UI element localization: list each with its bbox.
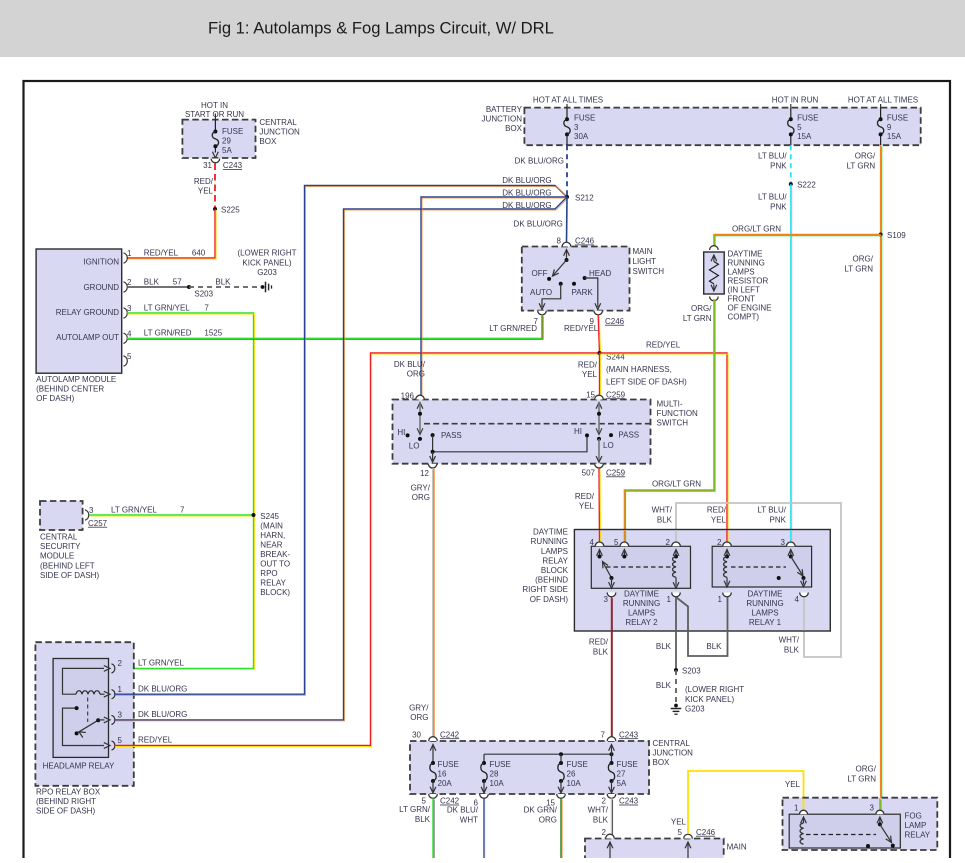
svg-text:ORG: ORG — [407, 370, 425, 379]
CJB pin 2 cap — [607, 794, 616, 798]
wire DK BLU/ORG dashed fuse 3 to S212 — [566, 145, 568, 196]
fuse F5 — [790, 108, 792, 120]
connector C243 pin 31 cap — [211, 159, 220, 163]
wire RED/YEL S244 down to C259 pin 15 — [599, 353, 601, 395]
central junction box (fuse 29) — [182, 120, 255, 158]
svg-text:29: 29 — [222, 137, 231, 146]
svg-text:1525: 1525 — [204, 329, 222, 338]
svg-text:RIGHT SIDE: RIGHT SIDE — [522, 585, 568, 594]
relay internal pin2 line — [63, 668, 105, 694]
svg-text:3: 3 — [118, 711, 123, 720]
relay2 switch arm — [603, 562, 612, 579]
wire WHT/BLK relay2 pin2 loop to relay1 pin4 — [676, 503, 841, 657]
svg-text:640: 640 — [192, 248, 206, 257]
MFS pass wire to right HI and pin 12 — [433, 435, 587, 452]
svg-text:5: 5 — [797, 123, 802, 132]
svg-text:DK BLU/: DK BLU/ — [394, 360, 426, 369]
ground G203 lower symbol — [674, 704, 678, 708]
svg-text:C242: C242 — [440, 730, 460, 739]
svg-text:3: 3 — [781, 538, 786, 547]
svg-text:GRY/: GRY/ — [409, 704, 429, 713]
wire LT BLU/PNK dashed fuse5 to S222 — [790, 145, 792, 183]
MFS pin 15 cap — [595, 395, 604, 399]
svg-text:S203: S203 — [682, 666, 701, 675]
svg-text:WHT: WHT — [460, 815, 478, 824]
svg-text:(BEHIND: (BEHIND — [535, 576, 568, 585]
svg-text:2: 2 — [602, 797, 607, 806]
relay1 contact dot — [777, 576, 781, 580]
switch common dot — [565, 258, 569, 262]
svg-text:HI: HI — [397, 428, 405, 437]
wire to pin 12 — [432, 452, 434, 461]
svg-text:MAIN: MAIN — [633, 247, 653, 256]
module pin 2 bracket — [124, 282, 128, 292]
svg-text:FUSE: FUSE — [887, 113, 908, 122]
CJB pin 6 cap — [480, 794, 489, 798]
svg-text:2: 2 — [717, 538, 722, 547]
fuse F9 — [880, 108, 882, 120]
svg-text:OF DASH): OF DASH) — [36, 394, 75, 403]
svg-text:C242: C242 — [440, 797, 460, 806]
MFS left internal wire — [417, 403, 423, 409]
relay1 pin3 cap — [787, 542, 796, 546]
wire DK BLU/ORG relay pin 3 to S212 branch — [114, 197, 567, 720]
svg-text:DK BLU/ORG: DK BLU/ORG — [515, 157, 564, 166]
svg-text:C259: C259 — [606, 468, 626, 477]
wire stub ORG/LT GRN into relay2 pin5 — [623, 530, 625, 544]
relay pin 3 arrow and bracket — [104, 717, 110, 723]
svg-text:5: 5 — [118, 736, 123, 745]
svg-text:C243: C243 — [619, 730, 639, 739]
CJB pin 5 cap — [429, 794, 438, 798]
svg-text:PARK: PARK — [572, 288, 594, 297]
svg-text:OF DASH): OF DASH) — [530, 595, 569, 604]
svg-text:RED/: RED/ — [589, 638, 609, 647]
svg-text:AUTOLAMP OUT: AUTOLAMP OUT — [56, 333, 119, 342]
wire RED/YEL S225 to autolamp module pin 1 — [127, 209, 215, 258]
fog relay dashed link — [806, 834, 876, 836]
svg-text:ORG/: ORG/ — [853, 255, 874, 264]
CJB pin 15 cap — [557, 794, 566, 798]
svg-text:12: 12 — [420, 469, 429, 478]
resistor internal arrows — [711, 255, 717, 261]
fuse 29 arrow — [213, 152, 219, 158]
svg-text:PNK: PNK — [770, 161, 787, 170]
lower switch pin 5 cap — [684, 834, 693, 838]
svg-text:KICK PANEL): KICK PANEL) — [685, 695, 735, 704]
svg-text:RED/: RED/ — [575, 492, 595, 501]
svg-text:RUNNING: RUNNING — [728, 259, 765, 268]
relay internal dashed actuator link — [87, 698, 89, 723]
svg-text:FUSE: FUSE — [574, 113, 595, 122]
wire ORG/LT GRN resistor to DRL relay2 pin 5 — [624, 299, 714, 544]
MFS inner dashed separator — [424, 423, 651, 425]
fog lamp relay box — [783, 798, 938, 850]
svg-text:HI: HI — [574, 427, 582, 436]
relay coil — [76, 691, 100, 694]
splice S245 — [252, 513, 256, 517]
relay pin 2 arrow and bracket — [104, 666, 110, 672]
svg-text:C259: C259 — [606, 390, 626, 399]
svg-text:(LOWER RIGHT: (LOWER RIGHT — [237, 249, 296, 258]
svg-text:RPO: RPO — [260, 569, 277, 578]
svg-text:LT GRN: LT GRN — [844, 264, 873, 273]
relay2 pin5 stub — [622, 550, 628, 556]
svg-text:5A: 5A — [617, 779, 627, 788]
svg-text:LT GRN/YEL: LT GRN/YEL — [111, 505, 157, 514]
wire BLK module pin 2 to S203 — [127, 286, 188, 288]
fuse F28 — [483, 754, 485, 763]
wire DK BLU/ORG relay pin 1 to S212 branch — [114, 186, 567, 695]
svg-text:DAYTIME: DAYTIME — [624, 590, 659, 599]
svg-text:RED/YEL: RED/YEL — [564, 324, 599, 333]
wire DK BLU/ORG S212 to main light switch pin 8 — [566, 197, 569, 242]
svg-text:SIDE OF DASH): SIDE OF DASH) — [36, 807, 95, 816]
ground G203 symbol (sideways) — [261, 285, 265, 289]
fog relay pin 3 internal — [877, 817, 883, 823]
svg-text:S222: S222 — [797, 181, 816, 190]
OFF position dot — [547, 277, 551, 281]
svg-text:DK BLU/ORG: DK BLU/ORG — [502, 201, 551, 210]
relay2 pin4 cap — [595, 542, 604, 546]
CJB pin 30 cap — [429, 737, 438, 741]
svg-text:Fig 1: Autolamps & Fog Lamps C: Fig 1: Autolamps & Fog Lamps Circuit, W/… — [208, 19, 554, 38]
wire DK BLU/ORG S212 middle branch to MFS pin 196 — [421, 197, 567, 396]
wire stub LT BLU/PNK into relay1 pin3 — [790, 530, 792, 544]
svg-text:DK BLU/ORG: DK BLU/ORG — [514, 220, 563, 229]
svg-text:LT GRN: LT GRN — [847, 161, 876, 170]
svg-text:LAMPS: LAMPS — [541, 547, 568, 556]
MFS pin 12 cap — [428, 464, 437, 468]
svg-text:RESISTOR: RESISTOR — [728, 277, 769, 286]
svg-text:DK BLU/: DK BLU/ — [447, 806, 479, 815]
svg-text:BOX: BOX — [505, 124, 523, 133]
relay2 coil — [673, 550, 679, 556]
svg-text:OF ENGINE: OF ENGINE — [728, 304, 772, 313]
daytime running lamps relay block box — [574, 530, 830, 632]
svg-text:BLK: BLK — [593, 815, 609, 824]
svg-text:FUNCTION: FUNCTION — [657, 409, 699, 418]
relay switch arm — [79, 720, 98, 732]
central junction box lower — [410, 741, 649, 794]
svg-text:ORG/LT GRN: ORG/LT GRN — [652, 480, 701, 489]
relay 1 inner box — [712, 546, 811, 587]
relay2 pin4 internal — [597, 550, 603, 556]
switch pin8 entry arrow — [564, 250, 570, 256]
CSM pin 3 bracket — [85, 510, 89, 520]
svg-text:20A: 20A — [438, 779, 453, 788]
splice S225 — [213, 207, 217, 211]
relay internal pivot to pin3 — [98, 719, 104, 721]
svg-text:BREAK-: BREAK- — [260, 550, 290, 559]
svg-text:BLK: BLK — [784, 645, 800, 654]
svg-text:WHT/: WHT/ — [652, 506, 673, 515]
svg-text:30A: 30A — [574, 132, 589, 141]
AUTO position dot — [559, 282, 563, 286]
svg-text:9: 9 — [887, 123, 892, 132]
svg-text:AUTOLAMP MODULE: AUTOLAMP MODULE — [36, 375, 116, 384]
svg-text:RED/: RED/ — [194, 177, 214, 186]
svg-text:RED/YEL: RED/YEL — [144, 248, 179, 257]
svg-text:PASS: PASS — [618, 431, 639, 440]
svg-text:START OR RUN: START OR RUN — [185, 110, 244, 119]
svg-text:YEL: YEL — [582, 370, 598, 379]
fuse16 entry arrow — [430, 745, 436, 751]
svg-text:BOX: BOX — [653, 758, 671, 767]
svg-text:RUNNING: RUNNING — [623, 599, 660, 608]
svg-text:PNK: PNK — [770, 515, 787, 524]
fuse F26 — [560, 754, 562, 763]
svg-text:FUSE: FUSE — [438, 760, 459, 769]
svg-text:S212: S212 — [575, 193, 594, 202]
svg-text:DAYTIME: DAYTIME — [533, 528, 568, 537]
svg-text:BLK: BLK — [144, 277, 160, 286]
svg-text:3: 3 — [127, 304, 132, 313]
svg-text:DK BLU/ORG: DK BLU/ORG — [502, 188, 551, 197]
svg-text:2: 2 — [118, 659, 123, 668]
fog relay coil — [801, 817, 807, 823]
svg-text:LT GRN/RED: LT GRN/RED — [489, 324, 537, 333]
svg-text:YEL: YEL — [671, 818, 687, 827]
HEAD wire to pin 9 — [585, 278, 598, 307]
svg-text:31: 31 — [203, 161, 212, 170]
svg-text:(BEHIND CENTER: (BEHIND CENTER — [36, 384, 104, 393]
wire ORG/LT GRN S109 to DRL resistor — [714, 235, 881, 247]
relay1 arm to pin4 — [803, 578, 805, 585]
fuse F27 — [611, 754, 613, 763]
svg-text:3: 3 — [604, 595, 609, 604]
svg-text:RELAY: RELAY — [260, 579, 286, 588]
relay1 pin1 cap — [723, 593, 732, 597]
svg-text:SECURITY: SECURITY — [40, 542, 81, 551]
wire DK BLU/WHT fuse28 down — [483, 798, 485, 858]
splice S222 — [789, 182, 793, 186]
svg-text:1: 1 — [794, 804, 799, 813]
daytime running lamps resistor box — [704, 252, 725, 294]
wire WHT/BLK fuse27 to lower main light switch pin 2 — [611, 798, 613, 834]
svg-text:30: 30 — [412, 730, 421, 739]
HI dot right — [585, 433, 589, 437]
svg-text:26: 26 — [567, 770, 576, 779]
svg-text:1: 1 — [118, 685, 123, 694]
svg-text:ORG/: ORG/ — [855, 152, 876, 161]
CJB internal rail — [484, 753, 612, 755]
svg-text:4: 4 — [127, 329, 132, 338]
fuse27 entry arrow — [609, 745, 615, 751]
svg-text:SIDE OF DASH): SIDE OF DASH) — [40, 571, 99, 580]
svg-text:C243: C243 — [619, 797, 639, 806]
svg-text:FRONT: FRONT — [728, 295, 756, 304]
svg-text:NEAR: NEAR — [260, 541, 282, 550]
svg-text:LAMPS: LAMPS — [728, 268, 755, 277]
svg-text:27: 27 — [617, 770, 626, 779]
svg-text:S109: S109 — [887, 231, 906, 240]
MFS right internal wire — [596, 403, 602, 409]
svg-text:2: 2 — [602, 828, 607, 837]
relay1 coil internal — [724, 550, 730, 556]
svg-text:C243: C243 — [223, 161, 243, 170]
svg-text:10A: 10A — [490, 779, 505, 788]
svg-text:PASS: PASS — [441, 431, 462, 440]
wire LT GRN/RED module pin 4 to main light switch pin 7 — [127, 315, 542, 339]
wire RED/YEL relay pin 5 to S244 branch — [114, 353, 600, 746]
svg-text:RELAY: RELAY — [542, 556, 568, 565]
svg-text:LT GRN/: LT GRN/ — [399, 805, 431, 814]
svg-text:RELAY 2: RELAY 2 — [625, 618, 658, 627]
svg-text:SWITCH: SWITCH — [633, 267, 665, 276]
wire LT GRN/RED pin7 stub — [541, 315, 543, 339]
svg-text:DAYTIME: DAYTIME — [728, 250, 763, 259]
wire stub RED/YEL into relay1 pin2 — [726, 530, 728, 544]
wire BLK relay2 pin1 to relay1 pin1 U-loop — [677, 597, 728, 656]
module pin 3 bracket — [124, 308, 128, 318]
relay pin 1 arrow and bracket — [104, 691, 110, 697]
svg-text:3: 3 — [89, 506, 94, 515]
svg-text:COMPT): COMPT) — [728, 313, 760, 322]
svg-text:3: 3 — [870, 804, 875, 813]
splice S203 (module ground) — [187, 285, 191, 289]
wire RED/YEL fusible link (dashed) to S225 — [214, 164, 216, 209]
relay2 dashed link — [606, 566, 671, 568]
wire RED/BLK relay2 pin3 to CJB fuse 27 — [611, 597, 613, 737]
svg-text:PNK: PNK — [770, 202, 787, 211]
wire LT BLU/PNK S222 to DRL relay1 pin 3 — [790, 184, 792, 544]
junction dot on pass wire — [431, 450, 435, 454]
relay arm end dot — [75, 731, 79, 735]
fuse F29 — [214, 120, 216, 132]
splice S109 — [879, 233, 883, 237]
svg-text:BATTERY: BATTERY — [486, 105, 523, 114]
svg-text:DK BLU/ORG: DK BLU/ORG — [502, 176, 551, 185]
main light switch pin 8 cap — [562, 242, 571, 246]
wire ORG/LT GRN fuse 9 down right side to fog lamp relay pin 3 — [880, 145, 882, 812]
wire stub above fuse 29 — [214, 114, 216, 120]
MFS pin 507 cap — [595, 464, 604, 468]
main light switch box — [522, 247, 630, 311]
relay2 pin2 cap — [672, 542, 681, 546]
wire LT GRN/YEL CSM to S245 — [90, 514, 254, 516]
svg-text:FUSE: FUSE — [797, 113, 818, 122]
svg-text:G203: G203 — [685, 705, 705, 714]
svg-text:RELAY: RELAY — [905, 830, 931, 839]
svg-text:JUNCTION: JUNCTION — [653, 749, 694, 758]
svg-text:15A: 15A — [887, 132, 902, 141]
AUTO wire to pin 7 — [542, 284, 561, 307]
svg-text:LT BLU/: LT BLU/ — [758, 193, 787, 202]
svg-text:MODULE: MODULE — [40, 552, 74, 561]
svg-text:OFF: OFF — [532, 269, 548, 278]
fuse 9 stub — [880, 104, 882, 108]
svg-text:WHT/: WHT/ — [588, 806, 609, 815]
module pin 4 bracket — [124, 333, 128, 343]
fuse F16 — [431, 761, 435, 765]
relay1 pin4 cap — [800, 593, 809, 597]
MFS right internal lower — [598, 439, 600, 461]
svg-text:BOX: BOX — [259, 137, 277, 146]
svg-text:BLK: BLK — [706, 642, 722, 651]
svg-text:LO: LO — [603, 441, 614, 450]
svg-text:GRY/: GRY/ — [411, 484, 431, 493]
svg-text:LT GRN/YEL: LT GRN/YEL — [138, 659, 184, 668]
MFS left lower dot — [418, 437, 422, 441]
svg-text:LIGHT: LIGHT — [633, 257, 657, 266]
svg-text:LAMP: LAMP — [905, 821, 927, 830]
wire RED/YEL MFS 507 to DRL relay2 pin 4 — [598, 468, 601, 544]
svg-text:CENTRAL: CENTRAL — [653, 739, 691, 748]
fog relay inner box — [789, 814, 900, 848]
wire BLK relay2 pin1 to S203 — [675, 597, 677, 668]
svg-text:7: 7 — [601, 730, 606, 739]
lower main light switch box — [585, 839, 724, 861]
relay contact dot — [75, 706, 79, 710]
svg-text:8: 8 — [557, 237, 562, 246]
svg-text:C246: C246 — [696, 828, 716, 837]
switch arm to OFF — [553, 260, 567, 276]
svg-text:C257: C257 — [88, 519, 108, 528]
CJB pin 7 cap — [607, 737, 616, 741]
relay internal coil to pin1 — [100, 693, 105, 695]
svg-text:BLK: BLK — [656, 642, 672, 651]
svg-text:HOT IN RUN: HOT IN RUN — [772, 95, 819, 104]
svg-text:GROUND: GROUND — [83, 283, 119, 292]
relay 2 inner box — [591, 546, 690, 588]
relay1 switch arm — [791, 557, 803, 577]
fog relay switch arm — [880, 824, 892, 842]
wire LT GRN/YEL module pin 3 down left rail — [114, 313, 254, 668]
relay1 pin2 cap — [723, 542, 732, 546]
svg-text:AUTO: AUTO — [530, 288, 552, 297]
svg-text:HOT AT ALL TIMES: HOT AT ALL TIMES — [848, 95, 918, 104]
svg-text:7: 7 — [204, 303, 209, 312]
svg-text:HEAD: HEAD — [589, 269, 611, 278]
svg-text:IGNITION: IGNITION — [83, 257, 119, 266]
MFS pin 196 cap — [416, 395, 425, 399]
resistor zigzag — [709, 262, 718, 284]
wire stub ORG/LT GRN into fog relay pin 3 — [879, 799, 881, 813]
svg-text:7: 7 — [180, 505, 185, 514]
wire stub YEL into fog relay pin 1 — [803, 799, 805, 813]
svg-text:RPO RELAY BOX: RPO RELAY BOX — [36, 788, 101, 797]
svg-text:YEL: YEL — [785, 780, 801, 789]
relay arm pivot dot — [96, 718, 100, 722]
svg-text:1: 1 — [127, 249, 132, 258]
svg-text:LEFT SIDE OF DASH): LEFT SIDE OF DASH) — [606, 377, 687, 386]
lower switch pin 2 cap — [606, 834, 615, 838]
svg-text:CENTRAL: CENTRAL — [40, 533, 78, 542]
svg-text:BLK: BLK — [215, 277, 231, 286]
wire stub WHT/BLK into relay2 pin2 — [675, 530, 677, 544]
splice S244 — [598, 351, 602, 355]
svg-text:LT BLU/: LT BLU/ — [757, 506, 786, 515]
relay2 pin5 cap — [620, 542, 629, 546]
splice S203 lower — [674, 668, 678, 672]
svg-text:C246: C246 — [575, 237, 595, 246]
title bar — [0, 0, 965, 57]
svg-text:BLK: BLK — [656, 681, 672, 690]
fuse F3 — [566, 108, 568, 120]
svg-text:1: 1 — [667, 595, 672, 604]
module pin 1 bracket — [124, 253, 128, 263]
svg-text:2: 2 — [127, 278, 132, 287]
svg-text:RUNNING: RUNNING — [746, 599, 783, 608]
svg-text:HOT AT ALL TIMES: HOT AT ALL TIMES — [533, 95, 603, 104]
svg-text:JUNCTION: JUNCTION — [259, 128, 300, 137]
svg-text:CENTRAL: CENTRAL — [259, 118, 297, 127]
svg-text:JUNCTION: JUNCTION — [482, 115, 523, 124]
svg-text:(LOWER RIGHT: (LOWER RIGHT — [685, 685, 744, 694]
fuse 5 stub — [790, 104, 792, 108]
wire RED/YEL pin 9 to S244 — [598, 315, 599, 353]
